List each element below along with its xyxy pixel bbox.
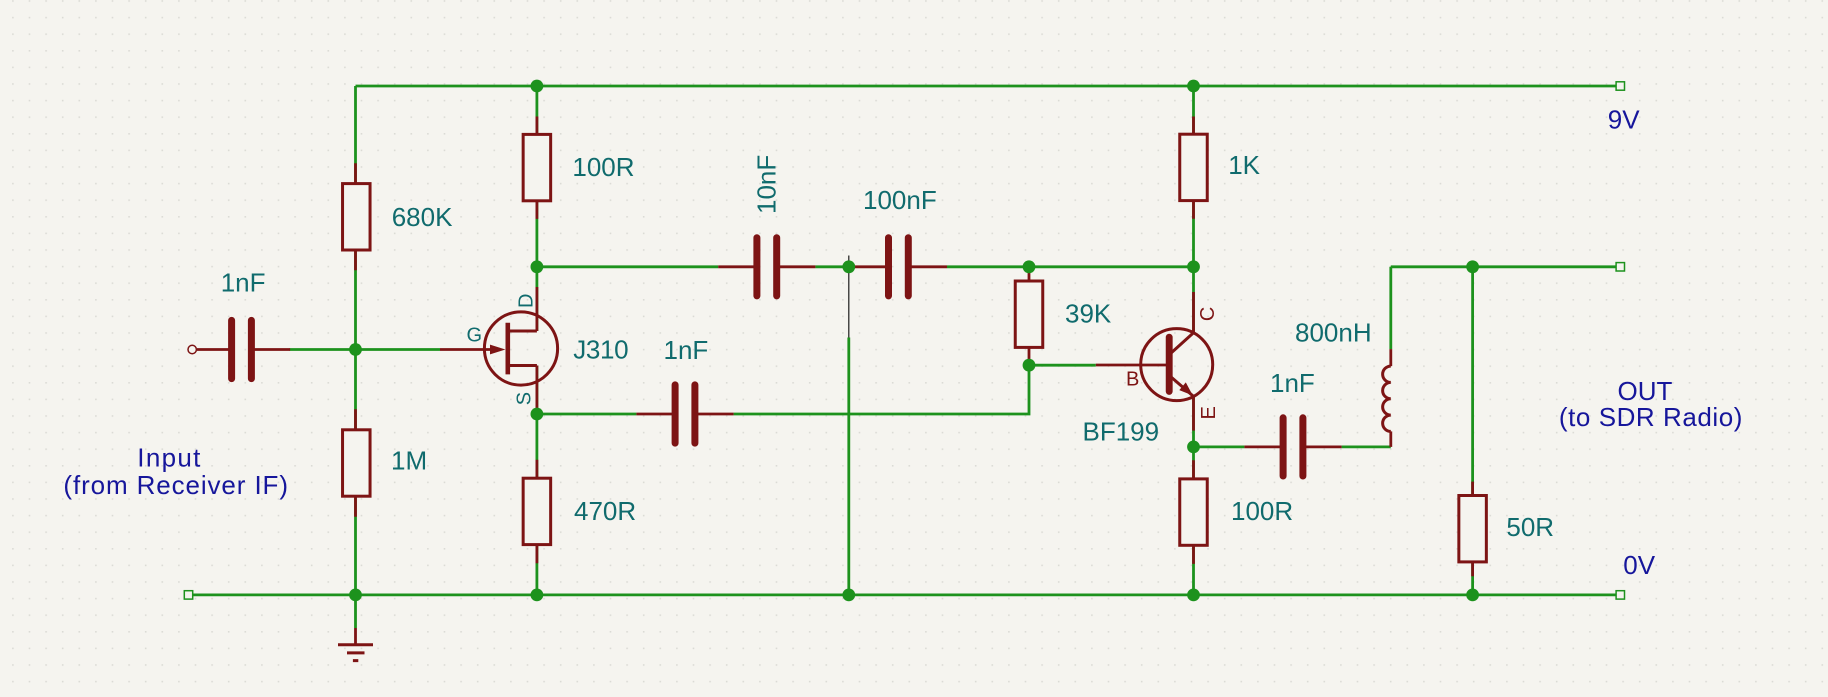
resistor 39K body [1015,281,1043,347]
svg-text:680K: 680K [392,202,453,232]
capacitor 1nF output leads [1244,445,1341,448]
svg-text:C: C [1197,307,1219,321]
wire 9V top rail [356,85,1621,88]
transistor BF199 collector diagonal [1172,333,1194,353]
svg-text:1nF: 1nF [664,335,709,365]
junction dot 0V rail at 100R emitter [1187,589,1200,602]
graphic thin dark line at node x=848.8 [848,256,850,338]
junction dot mid row at drain [531,260,544,273]
transistor BF199 base bar [1166,337,1173,391]
junction dot input node [349,343,362,356]
junction dot source node [531,408,544,421]
junction dot mid row at collector [1187,260,1200,273]
svg-text:(to SDR Radio): (to SDR Radio) [1559,402,1743,432]
wire emitter row left [1194,445,1245,448]
transistor BF199 collector pin [1192,292,1195,333]
transistor BF199 emitter pin [1192,396,1195,430]
junction dot 0V rail at 470R [531,589,544,602]
svg-text:B: B [1126,368,1139,390]
wire source row right + up to 39K node [734,365,1029,414]
inductor 800nH top pin [1389,349,1392,366]
wire emitter column lower [1192,396,1195,595]
capacitor C-in 1nF plates [232,320,252,378]
ground symbol bars [338,645,373,661]
svg-text:1K: 1K [1228,150,1260,180]
input pin open circle [188,345,196,353]
transistor BF199 body circle [1141,329,1213,401]
resistor 680K pins [354,163,357,270]
resistor 1K body [1180,134,1208,200]
wire mid row segment C [947,265,1194,268]
svg-text:G: G [467,325,483,347]
capacitor 10nF plates [757,238,777,296]
resistor 50R pins [1471,482,1474,577]
terminal square 9V rail end [1616,82,1624,90]
transistor J310 gate pin [440,348,491,351]
resistor 1M pins [354,409,357,517]
resistor 100R body [523,134,551,200]
wire 100R/470R column lower [536,366,539,595]
svg-text:1nF: 1nF [221,268,266,298]
transistor BF199 emitter diagonal [1172,377,1194,396]
wire OUT row [1391,265,1620,268]
inductor 800nH coils [1383,366,1391,431]
svg-text:S: S [514,392,536,405]
ground symbol pin [354,628,357,645]
capacitor 100nF plates [889,238,909,296]
junction dot 39K bottom node [1023,359,1036,372]
capacitor 1nF output plates [1283,418,1303,476]
transistor J310 body circle [484,312,557,385]
junction dot mid row at 39K [1023,260,1036,273]
capacitor C-in 1nF leads [197,348,290,351]
junction dot mid row center node [842,260,855,273]
terminal square 0V rail left end [184,591,192,599]
svg-text:800nH: 800nH [1295,318,1372,348]
svg-text:1nF: 1nF [1270,368,1315,398]
junction dot OUT node [1466,260,1479,273]
svg-text:100R: 100R [1231,496,1293,526]
capacitor 10nF leads [718,265,815,268]
resistor 100R emitter body [1180,479,1208,545]
wire collector column upper [1192,86,1195,333]
resistor 50R body [1459,496,1487,562]
svg-text:9V: 9V [1608,104,1640,134]
resistor 39K pins [1028,268,1031,363]
svg-text:Input: Input [137,442,201,472]
svg-text:J310: J310 [573,335,628,365]
transistor BF199 emitter arrow [1179,382,1193,395]
junction dot 0V rail at ground [349,589,362,602]
junction dot top rail at 1K [1187,80,1200,93]
transistor J310 drain stub [508,330,537,333]
wire 100R/470R column upper [536,86,539,331]
wire source row left [537,413,637,416]
capacitor 1nF source leads [636,413,733,416]
wire input row gate segment [290,348,441,351]
resistor 680K body [343,184,371,250]
wire mid row segment B [815,265,849,268]
svg-text:50R: 50R [1506,512,1554,542]
junction dot 0V rail at 50R [1466,589,1479,602]
transistor J310 source stub [508,364,537,367]
svg-text:(from Receiver IF): (from Receiver IF) [63,470,288,500]
transistor J310 source pin [536,366,539,410]
terminal square OUT rail end [1616,263,1624,271]
resistor 1K pins [1192,117,1195,219]
svg-text:10nF: 10nF [752,155,782,214]
svg-text:D: D [516,294,538,308]
inductor 800nH bottom pin [1389,431,1392,447]
wire emitter row right [1342,445,1391,448]
svg-text:BF199: BF199 [1083,416,1160,446]
wire 50R column [1471,267,1474,595]
transistor J310 drain pin [536,287,539,331]
capacitor 100nF leads [850,265,947,268]
svg-text:E: E [1198,406,1220,419]
resistor 470R body [523,478,551,544]
wire 39K node to base [1029,364,1096,367]
svg-text:470R: 470R [574,496,636,526]
node vertical wire x=848.8 down to 0V rail [847,338,850,595]
capacitor 1nF source plates [675,385,695,443]
junction dot 0V rail at center node [842,589,855,602]
junction dot emitter node [1187,441,1200,454]
transistor J310 channel bar [505,323,510,375]
resistor 1M body [343,430,371,496]
wire 0V bottom rail [189,594,1621,597]
transistor J310 gate arrow [490,345,505,355]
svg-text:100R: 100R [572,152,634,182]
resistor 100R emitter pins [1192,460,1195,564]
svg-text:39K: 39K [1065,299,1112,329]
resistor 470R pins [536,460,539,564]
svg-text:1M: 1M [391,446,427,476]
resistor 100R pins [536,117,539,219]
junction dot top rail at 100R [531,80,544,93]
svg-text:0V: 0V [1623,550,1655,580]
terminal square 0V rail right end [1616,591,1624,599]
transistor BF199 base pin [1096,364,1166,367]
wire mid row segment A [537,265,718,268]
wire left branch x=355.5 (680K/1M column, down to ground) [354,86,357,628]
wire inductor top drop [1389,267,1392,349]
svg-text:100nF: 100nF [863,185,937,215]
